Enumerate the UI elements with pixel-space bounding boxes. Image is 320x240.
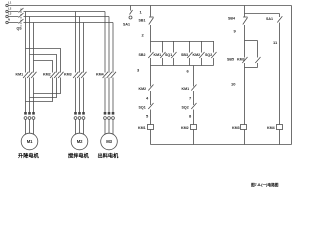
contact KM1 interlock: [182, 85, 197, 106]
svg-text:SB5: SB5: [227, 58, 234, 62]
wire right return rail: [291, 6, 293, 145]
svg-text:KM3: KM3: [232, 126, 240, 130]
svg-text:图7-8-(一)电路图: 图7-8-(一)电路图: [251, 182, 279, 187]
terminal L1: [6, 1, 12, 7]
svg-text:2: 2: [142, 33, 145, 38]
wire start/hold pair top bar: [245, 40, 258, 42]
wire KM2 loop 1: [26, 49, 61, 73]
svg-text:KM1: KM1: [182, 87, 190, 91]
svg-text:L3: L3: [8, 12, 12, 16]
limit switch SQ1 series contact: [139, 103, 154, 125]
wire M3 branch below contacts: [105, 78, 113, 113]
svg-text:SB4: SB4: [228, 17, 235, 21]
wire drop M2 phase b: [79, 17, 81, 73]
pushbutton SB1 (stop): [139, 6, 154, 42]
svg-text:KM3: KM3: [237, 58, 245, 62]
contactor KM3 main contacts: [64, 72, 87, 78]
wire drop M1 phase b: [29, 17, 31, 73]
svg-text:KM1: KM1: [16, 73, 24, 77]
svg-text:10: 10: [231, 82, 236, 87]
contact KM2 interlock: [139, 85, 154, 106]
wire M1 branch below contacts: [26, 78, 34, 113]
svg-text:L2: L2: [8, 7, 12, 11]
svg-text:M3: M3: [106, 139, 112, 144]
switch SA1 control contact: [266, 14, 282, 125]
svg-text:11: 11: [273, 40, 278, 45]
svg-text:KM2: KM2: [181, 126, 189, 130]
svg-text:1: 1: [140, 10, 143, 15]
wire M1 leads to motor: [26, 119, 34, 134]
svg-text:SB2: SB2: [139, 53, 146, 57]
svg-text:KM4: KM4: [96, 73, 104, 77]
wire KM2 loop 2: [30, 55, 57, 73]
svg-text:3: 3: [137, 68, 140, 73]
svg-text:QS: QS: [17, 27, 23, 31]
wire M2 leads to motor: [76, 119, 84, 134]
wire to coil KM3: [244, 68, 246, 125]
svg-text:KM2: KM2: [139, 87, 147, 91]
svg-text:SB1: SB1: [139, 19, 146, 23]
svg-text:KM2: KM2: [193, 53, 201, 57]
contact KM3 holding: [237, 41, 261, 68]
wire bottom control bus: [151, 144, 292, 146]
pushbutton SB2: [139, 41, 154, 66]
svg-text:M1: M1: [27, 139, 33, 144]
wire drop SB4 branch from line 1: [244, 6, 246, 18]
wire M2 branch below contacts: [76, 78, 84, 113]
svg-text:SQ2: SQ2: [182, 106, 189, 110]
svg-text:N: N: [8, 18, 10, 22]
svg-text:KM4: KM4: [267, 126, 275, 130]
svg-text:KM2: KM2: [43, 73, 51, 77]
svg-text:搅拌电机: 搅拌电机: [68, 152, 90, 160]
coil KM2: [181, 125, 197, 145]
switch QS: [17, 8, 24, 31]
wire drop M2 phase c: [83, 23, 85, 73]
svg-text:M2: M2: [77, 139, 83, 144]
svg-text:L1: L1: [8, 1, 12, 5]
svg-text:5: 5: [146, 114, 149, 119]
wire column KM2 coil branch: [193, 66, 195, 87]
pushbutton SB3: [181, 41, 193, 66]
wire line 2: [8, 11, 105, 13]
wire branch bus bottom: [151, 65, 214, 67]
coil KM1: [138, 125, 154, 145]
wire drop M3 phase b: [108, 17, 110, 73]
wire branch bus top: [151, 41, 214, 43]
motor M1: [18, 133, 40, 159]
svg-text:SA1: SA1: [123, 23, 130, 27]
svg-text:出料电机: 出料电机: [98, 152, 120, 160]
svg-text:8: 8: [189, 114, 192, 119]
pushbutton SB5 (start): [227, 41, 248, 68]
coil KM4: [267, 125, 283, 145]
terminal L2: [6, 7, 12, 13]
wire KM2 loop 3: [34, 61, 53, 73]
wire drop M2 phase a: [75, 12, 77, 73]
wire start/hold pair bottom bar: [245, 67, 258, 69]
svg-text:SQ1: SQ1: [139, 106, 146, 110]
wire line 1 (top supply line to control circuit): [8, 5, 291, 7]
thermal relay FR2 heater elements: [74, 112, 85, 119]
terminal L3: [6, 12, 12, 18]
limit switch SQ2 series contact: [182, 103, 197, 125]
terminal N: [6, 18, 10, 24]
svg-text:KM1: KM1: [138, 126, 146, 130]
contactor KM1 main contacts: [16, 72, 37, 78]
wire drop M3 phase a: [104, 12, 106, 73]
svg-text:KM3: KM3: [64, 73, 72, 77]
svg-text:SA1: SA1: [266, 17, 273, 21]
svg-text:升降电机: 升降电机: [18, 152, 40, 160]
contactor KM4 main contacts: [96, 72, 116, 78]
contact KM1 aux: [154, 41, 166, 66]
svg-text:9: 9: [234, 29, 237, 34]
limit switch SQ1 contact: [165, 41, 177, 66]
contact KM2 aux: [193, 41, 205, 66]
wire line 4: [8, 22, 113, 24]
svg-text:4: 4: [146, 96, 149, 101]
svg-text:KM1: KM1: [154, 53, 162, 57]
motor M3: [98, 133, 120, 159]
svg-text:SQ1: SQ1: [165, 53, 172, 57]
limit switch SQ2 contact: [205, 41, 217, 66]
wire M3 leads to motor: [105, 119, 113, 134]
wire drop M1 phase c: [33, 23, 35, 73]
svg-text:SQ2: SQ2: [205, 53, 212, 57]
pushbutton SB4 (stop): [228, 17, 248, 41]
contactor KM2 main contacts with reversing loop wiring: [26, 49, 64, 102]
wire drop M3 phase c: [112, 23, 114, 73]
thermal relay FR3 heater elements: [104, 112, 115, 119]
thermal relay FR1 heater elements: [24, 112, 35, 119]
wire column KM1 coil branch: [150, 66, 152, 87]
svg-text:6: 6: [187, 69, 190, 74]
wire tee to SA1 branch: [245, 13, 280, 15]
wire drop M1 phase a: [25, 12, 27, 73]
coil KM3: [232, 125, 247, 145]
wire line 3: [8, 16, 109, 18]
motor M2: [68, 133, 90, 159]
svg-text:SB3: SB3: [181, 53, 188, 57]
svg-text:7: 7: [189, 96, 192, 101]
switch SA1 pilot tap on line 1: [123, 6, 133, 27]
